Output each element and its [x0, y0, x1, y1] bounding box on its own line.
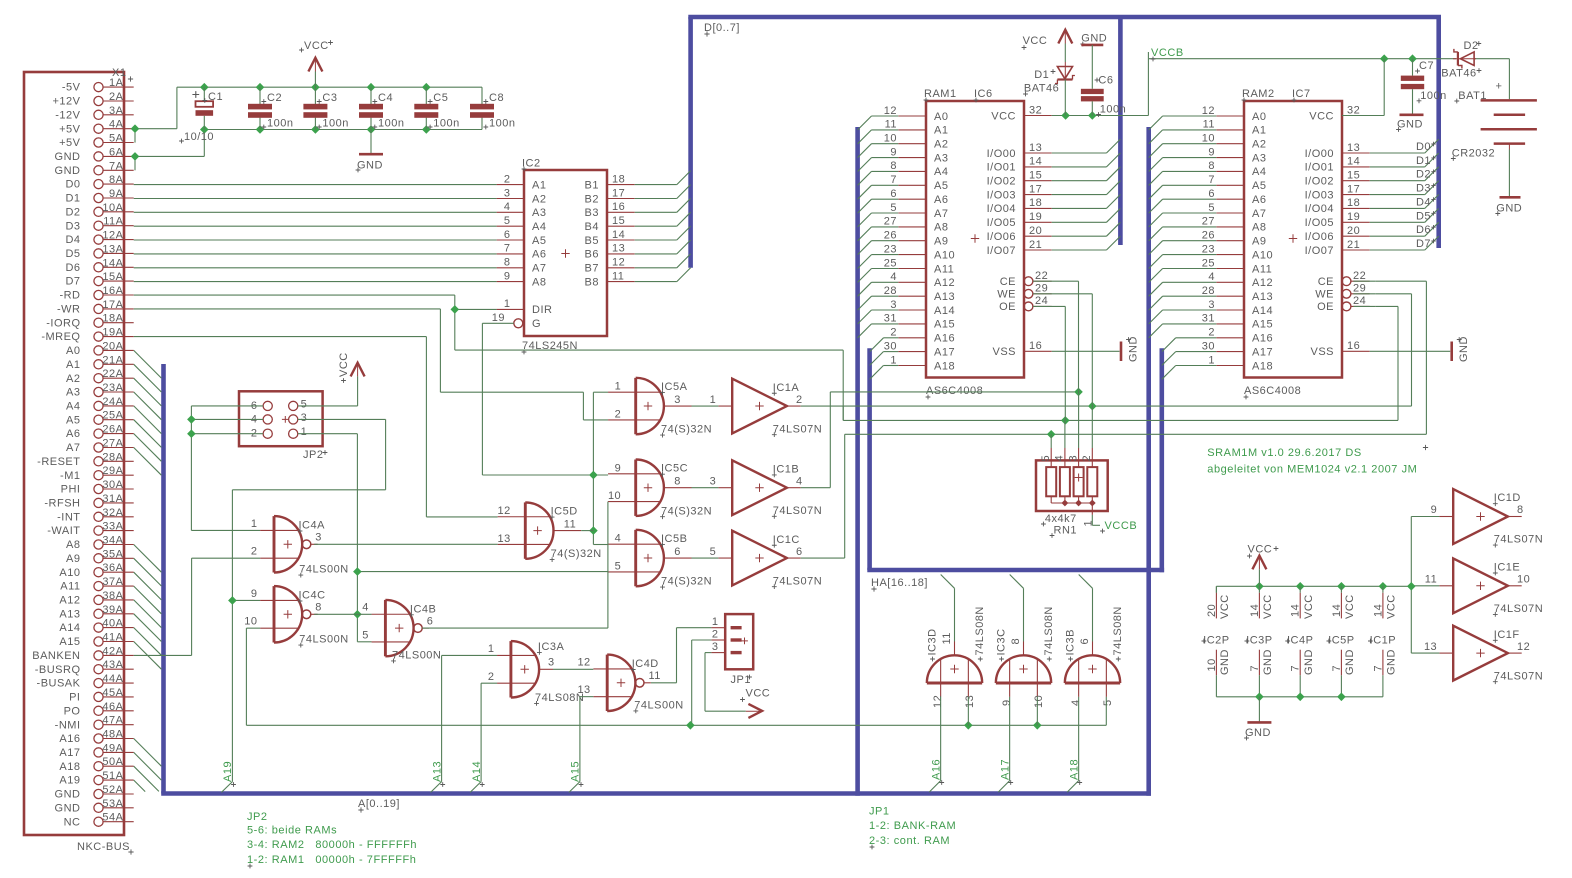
svg-text:D6: D6	[1416, 224, 1431, 236]
svg-text:4: 4	[1208, 271, 1215, 283]
wire JP2 pin3 / A19 net	[221, 419, 385, 792]
junction JP2 pin4	[187, 415, 196, 424]
wire IC4A out to IC5D.13	[314, 543, 497, 545]
capacitor C5 100n	[414, 87, 459, 129]
svg-text:BAT1: BAT1	[1458, 90, 1487, 102]
svg-text:VCCB: VCCB	[1151, 47, 1184, 59]
text JP2 legend	[247, 811, 417, 868]
svg-text:11A: 11A	[103, 216, 123, 228]
svg-text:IC2P: IC2P	[1203, 635, 1229, 647]
svg-text:NC: NC	[64, 816, 81, 828]
svg-text:23: 23	[884, 243, 897, 255]
svg-text:4: 4	[796, 475, 803, 487]
svg-text:GND: GND	[1496, 203, 1522, 215]
svg-text:48A: 48A	[102, 729, 123, 741]
svg-text:29A: 29A	[102, 465, 123, 477]
svg-text:74LS00N: 74LS00N	[634, 700, 683, 712]
wires RAM2 I/O pins to D bus with labels D0..D7	[1370, 139, 1439, 250]
wire IC3A out to IC4D.12	[553, 668, 593, 670]
svg-text:18: 18	[1029, 197, 1042, 209]
junction rail IC4P	[1296, 582, 1305, 591]
svg-text:A6: A6	[1252, 194, 1266, 206]
svg-text:A4: A4	[1252, 166, 1266, 178]
svg-text:IC1B: IC1B	[773, 463, 799, 475]
svg-text:GND: GND	[1386, 649, 1398, 675]
svg-text:GND: GND	[357, 160, 383, 172]
svg-text:-IORQ: -IORQ	[46, 317, 80, 329]
svg-text:100n: 100n	[322, 118, 348, 130]
svg-text:41A: 41A	[102, 632, 123, 644]
svg-text:VCC: VCC	[1219, 594, 1231, 619]
svg-text:D1: D1	[1416, 155, 1431, 167]
wire GND rail power pins	[1216, 696, 1383, 698]
svg-text:9: 9	[890, 146, 897, 158]
svg-text:3-4: RAM2 80000h - FFFFFFh: 3-4: RAM2 80000h - FFFFFFh	[247, 839, 417, 851]
ground GND symbol top caps	[356, 130, 383, 173]
svg-text:30: 30	[884, 340, 897, 352]
svg-text:C5: C5	[433, 92, 448, 104]
svg-text:10: 10	[244, 616, 257, 628]
wire G / IC5 common net	[482, 323, 608, 544]
junctions cap top rail	[200, 83, 431, 92]
svg-text:abgeleitet von MEM1024 v2.1 20: abgeleitet von MEM1024 v2.1 2007 JM	[1207, 463, 1417, 475]
svg-text:IC4D: IC4D	[632, 658, 659, 670]
connector X1 NKC-BUS	[24, 67, 134, 855]
wire -MREQ net	[134, 337, 498, 517]
svg-text:12A: 12A	[102, 230, 123, 242]
text title SRAM1M	[1207, 445, 1428, 475]
svg-text:IC3A: IC3A	[538, 641, 565, 653]
wire VCC RAM1 pin32 net	[1052, 59, 1510, 116]
wires RAM1 address pins to buses	[858, 116, 899, 379]
svg-text:+5V: +5V	[59, 137, 81, 149]
svg-text:26A: 26A	[102, 424, 123, 436]
svg-text:12: 12	[884, 105, 897, 117]
capacitor C6 100n	[1081, 75, 1126, 117]
svg-text:34A: 34A	[102, 535, 123, 547]
label VCCB	[1148, 47, 1183, 61]
power pins IC1P	[1368, 586, 1398, 697]
svg-text:VCC: VCC	[1262, 594, 1274, 619]
svg-text:A17: A17	[59, 747, 80, 759]
wire IC3B.4 / A18	[1067, 697, 1078, 792]
svg-text:1: 1	[488, 643, 495, 655]
svg-text:IC1P: IC1P	[1370, 635, 1396, 647]
svg-text:16A: 16A	[102, 285, 123, 297]
svg-text:2: 2	[796, 394, 803, 406]
svg-text:A14: A14	[471, 761, 483, 782]
svg-text:C1: C1	[208, 91, 223, 103]
NAND gate IC4A 74LS00N	[251, 516, 349, 577]
wire VCC rail power pins	[1216, 586, 1411, 593]
svg-text:9: 9	[251, 588, 258, 600]
svg-text:8: 8	[315, 602, 322, 614]
svg-text:74LS07N: 74LS07N	[1494, 603, 1543, 615]
svg-text:26: 26	[1202, 230, 1215, 242]
label A18	[1068, 759, 1082, 785]
svg-text:A6: A6	[66, 428, 80, 440]
svg-text:100n: 100n	[433, 118, 459, 130]
junction gnd rail IC3P	[1255, 693, 1264, 702]
svg-text:5: 5	[615, 560, 622, 572]
ground GND symbol power rail	[1244, 697, 1271, 741]
wires D0..D7 connector to IC2	[134, 185, 497, 282]
power pins IC5P	[1327, 586, 1357, 697]
svg-text:8: 8	[1010, 638, 1022, 645]
svg-text:11: 11	[564, 518, 576, 530]
svg-text:11: 11	[649, 670, 661, 682]
svg-text:A19: A19	[59, 775, 80, 787]
power pins IC3P	[1245, 586, 1275, 697]
svg-text:50A: 50A	[102, 756, 123, 768]
svg-text:1: 1	[712, 616, 719, 628]
svg-text:GND: GND	[1219, 649, 1231, 675]
svg-text:7: 7	[1372, 665, 1384, 672]
svg-text:PI: PI	[69, 692, 80, 704]
svg-text:29: 29	[1035, 283, 1048, 295]
svg-text:2: 2	[890, 327, 897, 339]
bus A RAM2 vertical	[1146, 127, 1151, 796]
buffer IC1A 74LS07N	[710, 379, 823, 437]
svg-text:5: 5	[710, 546, 717, 558]
svg-text:A1: A1	[532, 179, 546, 191]
bus D[0..7] label	[704, 22, 740, 37]
bus HA[16..18] horizontal	[867, 568, 1164, 573]
svg-text:A12: A12	[934, 277, 955, 289]
svg-text:10: 10	[608, 490, 621, 502]
svg-text:1: 1	[251, 518, 258, 530]
wire RAM2 VSS to ground	[1370, 350, 1451, 352]
svg-text:29: 29	[1353, 283, 1366, 295]
svg-text:A12: A12	[59, 595, 80, 607]
svg-text:2: 2	[504, 173, 511, 185]
svg-text:20: 20	[1347, 225, 1360, 237]
svg-text:GND: GND	[1262, 649, 1274, 675]
svg-text:A8: A8	[1252, 222, 1266, 234]
junction RAM1 WE	[1088, 402, 1097, 411]
svg-text:I/O04: I/O04	[987, 203, 1016, 215]
svg-text:5: 5	[1102, 699, 1114, 706]
svg-text:6: 6	[427, 615, 434, 627]
wire RAM1 CE drop	[1035, 281, 1078, 392]
svg-text:A14: A14	[934, 305, 955, 317]
svg-text:10: 10	[1202, 133, 1215, 145]
buffer IC2 74LS245N	[492, 158, 635, 355]
svg-text:VCC: VCC	[1023, 35, 1048, 47]
svg-text:27: 27	[884, 216, 897, 228]
svg-text:17: 17	[612, 187, 625, 199]
svg-text:11: 11	[1203, 119, 1215, 131]
bus HA[16..18] RAM1 vertical	[867, 348, 872, 570]
svg-text:42A: 42A	[102, 645, 123, 657]
svg-text:100n: 100n	[1420, 90, 1446, 102]
svg-text:27A: 27A	[102, 438, 123, 450]
svg-text:53A: 53A	[102, 798, 123, 810]
wire RN1 pull-up risers	[1051, 392, 1092, 448]
svg-text:11: 11	[885, 119, 897, 131]
wires IC2 B1..B8 to D bus with bus entries	[635, 171, 691, 282]
wire +5V net (pins 4A/5A to cap rail)	[135, 87, 482, 142]
svg-text:26: 26	[884, 230, 897, 242]
svg-text:A7: A7	[66, 442, 80, 454]
svg-text:21A: 21A	[102, 354, 123, 366]
svg-text:30A: 30A	[102, 479, 123, 491]
buffer IC1F 74LS07N	[1424, 626, 1543, 684]
svg-text:I/O06: I/O06	[987, 231, 1016, 243]
svg-text:6: 6	[674, 546, 681, 558]
svg-text:13: 13	[612, 243, 625, 255]
svg-text:CE: CE	[1318, 276, 1334, 288]
label A17	[999, 759, 1013, 785]
svg-text:11: 11	[1425, 574, 1437, 586]
supply VCC symbol at JP2	[338, 352, 365, 406]
svg-text:VCC: VCC	[1303, 594, 1315, 619]
svg-text:IC2: IC2	[522, 158, 541, 170]
svg-text:D1: D1	[65, 193, 80, 205]
bus D[0..7] RAM2 vertical	[1436, 17, 1441, 248]
svg-text:2-3: cont. RAM: 2-3: cont. RAM	[869, 835, 950, 847]
svg-text:D2: D2	[1464, 40, 1479, 52]
wire A13 to IC3A.1	[431, 655, 497, 792]
svg-text:A15: A15	[1252, 319, 1273, 331]
svg-text:32A: 32A	[102, 507, 123, 519]
wire RAM2 OE stub	[1353, 305, 1375, 307]
svg-text:5: 5	[1040, 455, 1052, 462]
svg-text:-5V: -5V	[62, 82, 81, 94]
svg-text:1: 1	[1208, 354, 1215, 366]
svg-text:A16: A16	[1252, 333, 1273, 345]
svg-text:19A: 19A	[102, 327, 123, 339]
svg-text:14: 14	[1249, 604, 1261, 617]
svg-text:20: 20	[1206, 604, 1218, 617]
svg-text:74LS08N: 74LS08N	[1112, 606, 1124, 655]
svg-text:4: 4	[1070, 699, 1082, 706]
wire IC4D out to JP1.1	[651, 628, 711, 683]
svg-text:OE: OE	[999, 301, 1016, 313]
svg-text:4A: 4A	[109, 119, 124, 131]
svg-text:A1: A1	[66, 359, 80, 371]
svg-text:A[0..19]: A[0..19]	[358, 798, 400, 810]
wire JP1.3 to VCC arrow	[705, 653, 746, 712]
svg-text:74LS08N: 74LS08N	[974, 606, 986, 655]
svg-text:36A: 36A	[102, 562, 123, 574]
svg-text:VCC: VCC	[1309, 110, 1334, 122]
wire BANKEN to IC4A.2	[134, 558, 260, 655]
svg-text:CE: CE	[1000, 276, 1016, 288]
bus A[0..19] label	[358, 798, 400, 813]
svg-text:35A: 35A	[102, 548, 123, 560]
junction gnd rail IC5P	[1337, 693, 1346, 702]
svg-text:WE: WE	[997, 289, 1016, 301]
svg-text:VCCB: VCCB	[1105, 520, 1138, 532]
svg-text:12: 12	[498, 505, 511, 517]
svg-text:A7: A7	[532, 263, 546, 275]
svg-text:15: 15	[612, 215, 625, 227]
svg-text:8: 8	[1517, 504, 1524, 516]
junction IC3D.13	[964, 721, 973, 730]
svg-text:9: 9	[1431, 504, 1438, 516]
ground GND symbol battery	[1495, 197, 1522, 216]
bus D[0..7] RAM1 vertical	[1118, 17, 1123, 245]
svg-text:24A: 24A	[102, 396, 123, 408]
svg-text:4: 4	[1054, 455, 1066, 462]
junction C6 at VCC wire	[1088, 111, 1097, 120]
svg-text:12: 12	[577, 656, 590, 668]
svg-text:A10: A10	[1252, 249, 1273, 261]
svg-text:B3: B3	[585, 207, 599, 219]
svg-text:6A: 6A	[109, 146, 124, 158]
svg-text:B8: B8	[585, 276, 599, 288]
svg-text:25A: 25A	[102, 410, 123, 422]
svg-text:A9: A9	[934, 236, 948, 248]
svg-text:+: +	[1496, 81, 1503, 93]
svg-text:A2: A2	[934, 139, 948, 151]
svg-text:19: 19	[492, 312, 505, 324]
svg-text:100n: 100n	[378, 118, 404, 130]
svg-text:RN1: RN1	[1054, 525, 1078, 537]
junction JP2.1/IC5B.5	[353, 567, 362, 576]
svg-text:B6: B6	[585, 249, 599, 261]
svg-text:A11: A11	[60, 581, 80, 593]
svg-text:21: 21	[1029, 239, 1042, 251]
svg-text:12: 12	[1517, 641, 1530, 653]
svg-text:A1: A1	[1252, 125, 1266, 137]
svg-text:A5: A5	[1252, 180, 1266, 192]
supply VCC symbol top	[299, 40, 333, 87]
svg-text:2: 2	[1081, 455, 1093, 462]
svg-text:AS6C4008: AS6C4008	[926, 385, 983, 397]
svg-text:100n: 100n	[489, 118, 515, 130]
svg-text:B5: B5	[585, 235, 599, 247]
svg-text:31A: 31A	[102, 493, 123, 505]
svg-text:13: 13	[498, 533, 511, 545]
buffer IC1D 74LS07N	[1431, 489, 1544, 547]
svg-text:D7: D7	[1416, 238, 1431, 250]
wire IC1D/E/F inputs to VCC rail	[1411, 517, 1439, 654]
svg-text:A15: A15	[934, 319, 955, 331]
junction IC3C.10	[1033, 721, 1042, 730]
svg-text:B7: B7	[585, 263, 599, 275]
svg-text:A0: A0	[1252, 111, 1266, 123]
svg-text:13: 13	[1347, 142, 1360, 154]
svg-text:10: 10	[884, 133, 897, 145]
svg-text:VSS: VSS	[992, 346, 1016, 358]
wires A16..A19 bus entries	[134, 739, 162, 792]
svg-text:39A: 39A	[102, 604, 123, 616]
svg-text:7: 7	[1331, 665, 1343, 672]
svg-text:-12V: -12V	[55, 109, 80, 121]
svg-text:10A: 10A	[102, 202, 123, 214]
bus A[0..19] bottom horizontal	[161, 791, 1151, 796]
svg-text:5: 5	[362, 630, 369, 642]
svg-text:-RFSH: -RFSH	[44, 498, 80, 510]
svg-text:8: 8	[504, 257, 511, 269]
svg-text:I/O07: I/O07	[987, 245, 1016, 257]
wire IC4C out to IC4B.4	[314, 613, 371, 615]
svg-text:74LS08N: 74LS08N	[1043, 606, 1055, 655]
svg-text:IC3C: IC3C	[995, 628, 1007, 655]
jumper JP2	[239, 391, 327, 461]
svg-text:NKC-BUS: NKC-BUS	[77, 841, 130, 853]
svg-text:74(S)32N: 74(S)32N	[661, 424, 712, 436]
svg-text:A2: A2	[66, 373, 80, 385]
svg-text:-WR: -WR	[57, 304, 81, 316]
svg-text:3: 3	[504, 187, 511, 199]
svg-text:1: 1	[710, 394, 717, 406]
OR gate IC5B 74(S)32N	[608, 530, 712, 590]
wire RAM1 WE drop	[1035, 294, 1092, 406]
svg-text:3: 3	[315, 532, 322, 544]
svg-text:3: 3	[1208, 299, 1215, 311]
capacitor C3 100n	[303, 87, 348, 129]
svg-text:6: 6	[1208, 188, 1215, 200]
svg-text:20: 20	[1029, 225, 1042, 237]
RAM2 IC7 AS6C4008	[1202, 88, 1370, 399]
ground GND symbol above C6	[1080, 33, 1107, 89]
wire RAM2 CE stub	[1353, 280, 1375, 282]
svg-text:32: 32	[1029, 104, 1042, 116]
diode D1 BAT46	[1023, 62, 1075, 116]
svg-text:C4: C4	[378, 92, 393, 104]
ground GND symbol RAM1 VSS	[1121, 336, 1139, 362]
svg-text:A12: A12	[1252, 277, 1273, 289]
svg-text:C2: C2	[267, 92, 282, 104]
text JP1 legend	[869, 806, 956, 850]
bus A[0..19] left vertical	[161, 364, 166, 794]
svg-text:74LS08N: 74LS08N	[535, 692, 584, 704]
wire IC3B.5 to VCC rail	[1105, 697, 1107, 726]
svg-text:4: 4	[890, 271, 897, 283]
AND gate IC3D 74LS08N	[926, 606, 986, 708]
supply VCC symbol right of JP1 (rotated)	[740, 688, 770, 718]
svg-text:IC5A: IC5A	[661, 381, 688, 393]
capacitor C8 100n	[470, 87, 515, 129]
svg-text:IC1D: IC1D	[1494, 492, 1521, 504]
junction D1 at VCC wire	[1061, 111, 1070, 120]
svg-text:RAM2: RAM2	[1242, 88, 1275, 100]
svg-text:A3: A3	[66, 387, 80, 399]
svg-text:GND: GND	[1245, 727, 1271, 739]
svg-text:18A: 18A	[102, 313, 123, 325]
svg-text:D2: D2	[1416, 169, 1431, 181]
svg-text:-M1: -M1	[60, 470, 80, 482]
wire WE net (IC1A out)	[801, 294, 1412, 421]
OR gate IC5A 74(S)32N	[608, 378, 712, 438]
battery BAT1 CR2032	[1451, 81, 1537, 198]
svg-text:HA[16..18]: HA[16..18]	[871, 577, 928, 589]
svg-text:14: 14	[1347, 156, 1360, 168]
svg-text:I/O03: I/O03	[987, 189, 1016, 201]
svg-text:23: 23	[1202, 243, 1215, 255]
svg-text:A13: A13	[934, 291, 955, 303]
NAND gate IC4C 74LS00N	[244, 586, 348, 647]
svg-text:44A: 44A	[102, 673, 123, 685]
svg-text:GND: GND	[55, 802, 81, 814]
svg-text:6: 6	[796, 546, 803, 558]
buffer IC1B 74LS07N	[710, 460, 823, 518]
svg-text:28: 28	[884, 285, 897, 297]
svg-text:5: 5	[301, 398, 308, 410]
junction rail IC1E	[1407, 582, 1416, 591]
svg-text:A8: A8	[934, 222, 948, 234]
svg-text:A6: A6	[934, 194, 948, 206]
svg-text:3: 3	[712, 641, 719, 653]
svg-text:A8: A8	[532, 276, 546, 288]
svg-text:8: 8	[890, 160, 897, 172]
svg-text:74LS07N: 74LS07N	[773, 423, 822, 435]
svg-text:5: 5	[890, 202, 897, 214]
svg-text:33A: 33A	[102, 521, 123, 533]
